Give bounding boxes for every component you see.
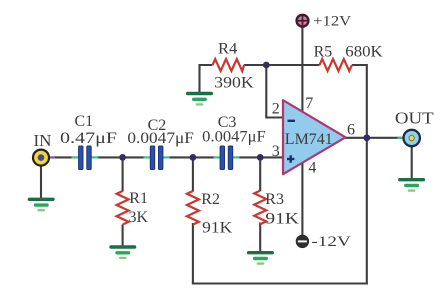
node B junction	[190, 154, 197, 161]
resistor R3 91K	[254, 191, 299, 228]
wire C2 to C3	[169, 156, 215, 158]
ground (OUT)	[398, 178, 425, 192]
terminal +12V	[297, 14, 352, 30]
terminal IN	[33, 131, 55, 166]
wire OUT terminal to ground	[411, 146, 413, 179]
wire R1 to ground	[122, 225, 124, 247]
wire node C to R3	[259, 157, 261, 191]
wire node A to R1	[122, 157, 124, 191]
wire node B to R2	[192, 157, 194, 191]
svg-text:-12V: -12V	[311, 234, 351, 250]
svg-text:R3: R3	[265, 191, 284, 208]
terminal -12V	[296, 234, 351, 250]
svg-text:+12V: +12V	[313, 14, 351, 30]
svg-text:R2: R2	[201, 191, 220, 208]
svg-text:7: 7	[305, 95, 313, 112]
ground (R3)	[247, 251, 274, 265]
svg-text:LM741: LM741	[285, 131, 333, 148]
wire pin 4 to -12V	[301, 162, 303, 236]
svg-text:6: 6	[347, 121, 355, 138]
wire C1 to C2	[98, 156, 145, 158]
ground (IN)	[28, 198, 55, 212]
wire +12V to pin 7	[301, 27, 303, 113]
svg-text:R1: R1	[129, 190, 148, 207]
capacitor C2 0.0047uF	[127, 117, 194, 170]
wire R4 to R5	[244, 64, 320, 66]
svg-text:IN: IN	[34, 131, 52, 150]
resistor R2 91K	[187, 191, 233, 237]
wire IN terminal to ground	[40, 165, 42, 199]
op-amp U1 LM741	[283, 100, 346, 174]
resistor R4 390K	[213, 41, 255, 92]
capacitor C1 0.47uF	[60, 113, 117, 170]
svg-text:4: 4	[308, 159, 316, 176]
svg-text:680K: 680K	[345, 44, 383, 61]
node A junction	[119, 154, 126, 161]
svg-text:91K: 91K	[265, 211, 299, 228]
wire R4 left to ground	[200, 65, 213, 93]
wire R3 to ground	[259, 223, 261, 252]
wire bottom rail	[192, 282, 368, 284]
svg-text:2: 2	[272, 101, 280, 118]
wire R2 to bottom rail	[192, 223, 194, 285]
svg-text:C1: C1	[75, 113, 94, 130]
node R4/R5 pin2 junction	[263, 62, 270, 69]
ground (R1)	[109, 245, 136, 259]
node output junction	[363, 134, 370, 141]
svg-text:R4: R4	[218, 41, 237, 58]
resistor R1 3K	[117, 190, 149, 226]
node C junction	[257, 154, 264, 161]
wire op-amp output to OUT	[345, 137, 404, 139]
terminal OUT	[395, 109, 434, 147]
svg-text:R5: R5	[314, 44, 333, 61]
svg-text:0.0047μF: 0.0047μF	[127, 130, 194, 147]
ground (R4)	[186, 92, 213, 106]
wire pin 2 from R4 node	[266, 65, 283, 118]
svg-text:3: 3	[272, 143, 280, 160]
wire C3 to op-amp pin 3	[239, 156, 284, 158]
svg-text:91K: 91K	[202, 220, 232, 237]
svg-text:3K: 3K	[129, 209, 149, 226]
capacitor C3 0.0047uF	[202, 114, 266, 170]
svg-text:0.47μF: 0.47μF	[60, 130, 117, 147]
svg-text:OUT: OUT	[395, 109, 434, 128]
svg-text:390K: 390K	[214, 75, 254, 92]
resistor R5 680K	[314, 44, 384, 72]
wire IN to C1	[48, 156, 73, 158]
svg-text:0.0047μF: 0.0047μF	[202, 129, 266, 146]
wire R5 right feedback down to bottom rail	[352, 65, 367, 285]
